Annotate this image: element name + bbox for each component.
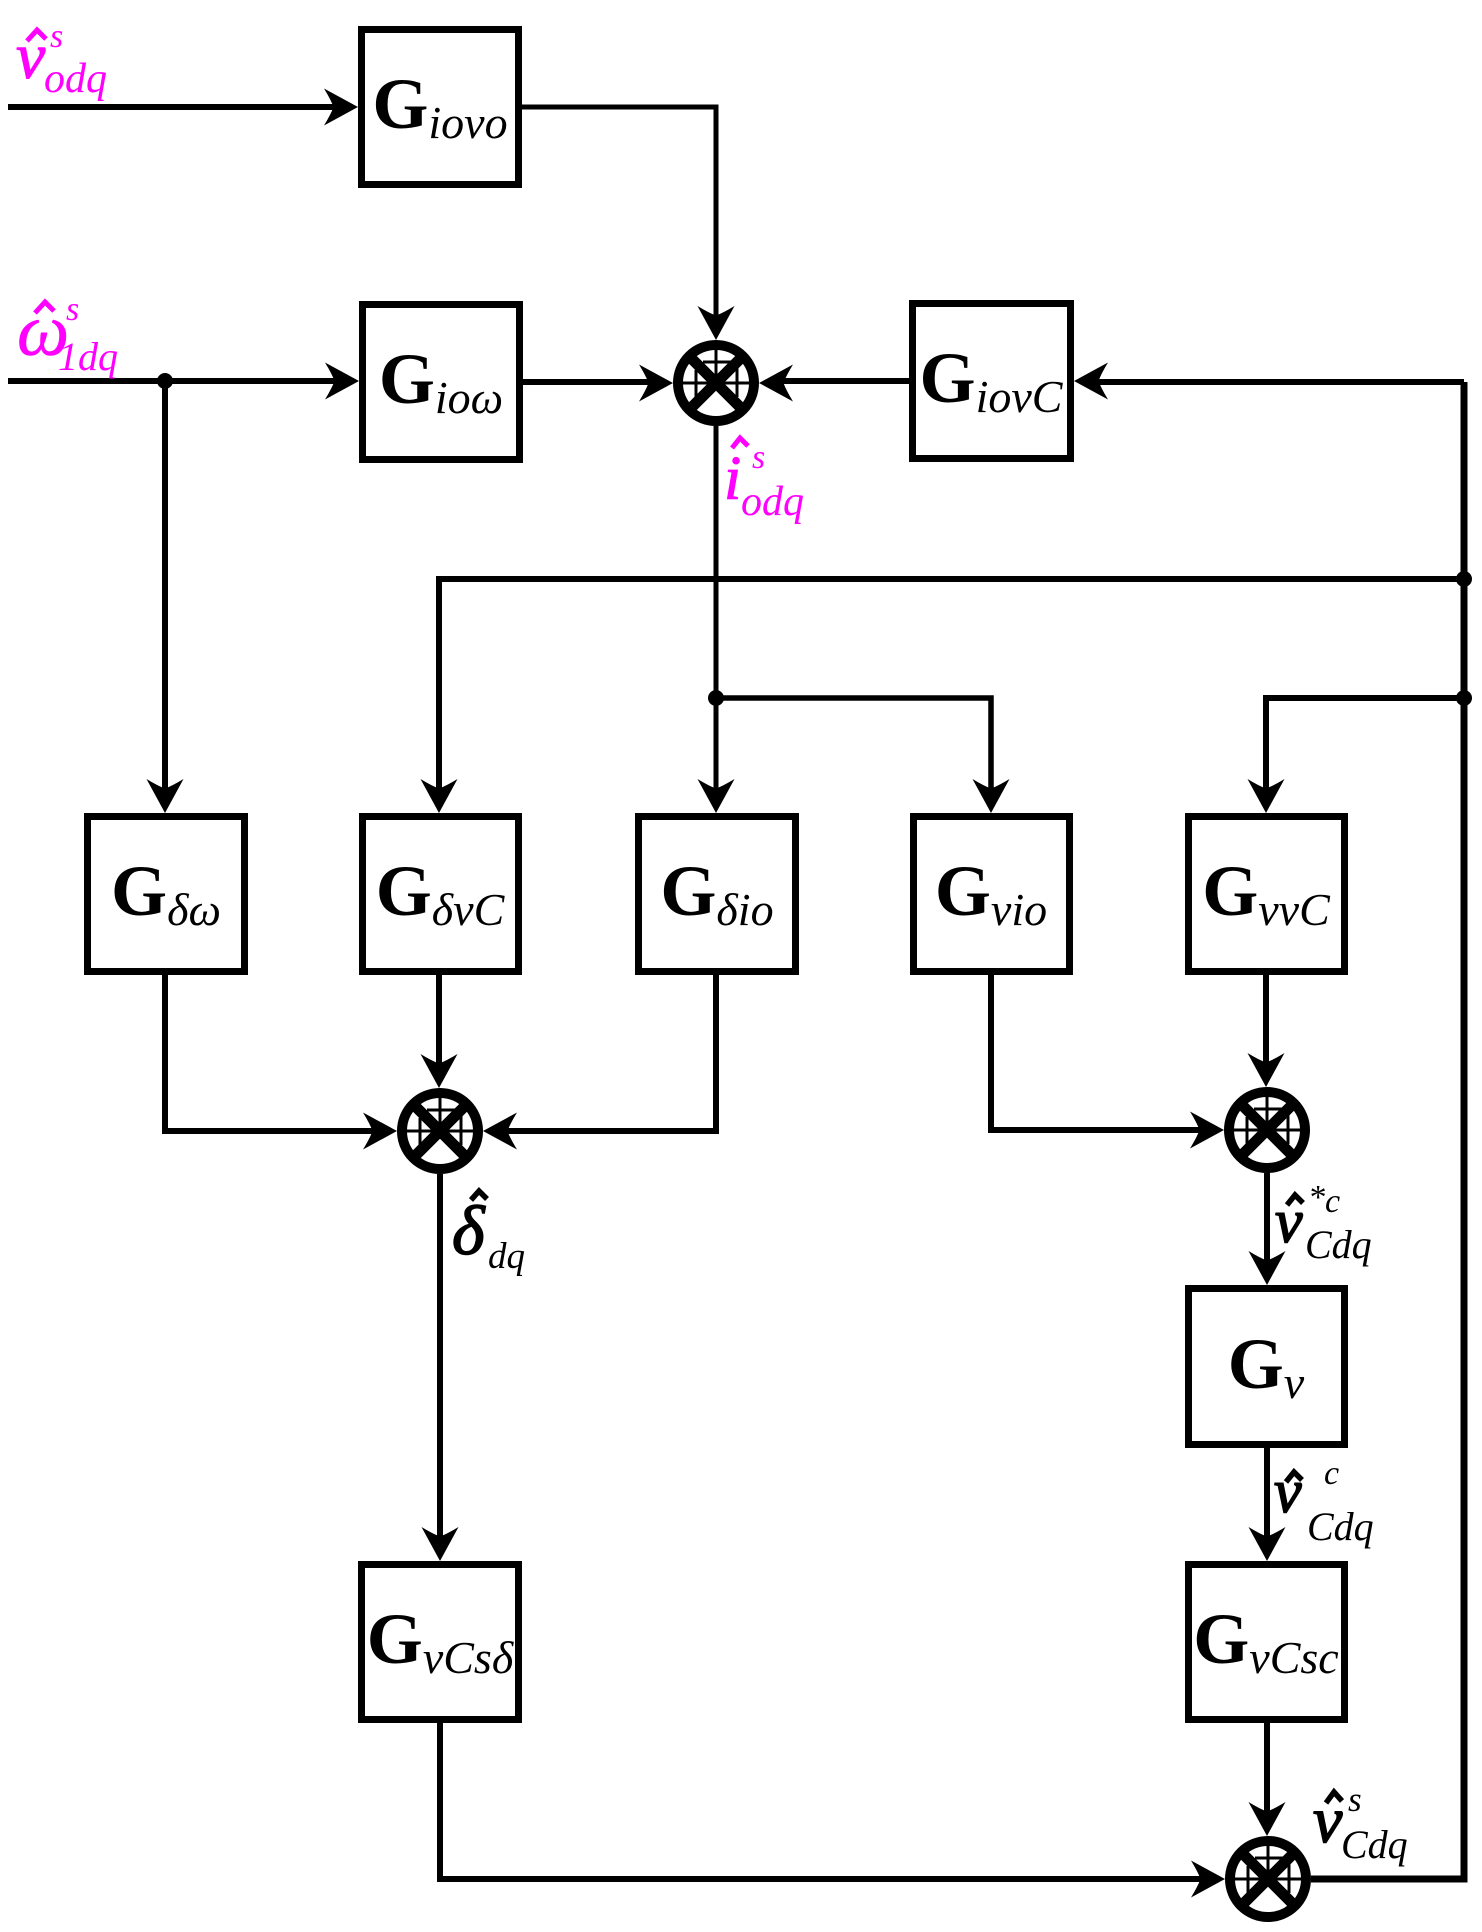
label vc_Cdq xyxy=(1274,1455,1374,1549)
svg-text:v: v xyxy=(16,20,46,93)
wire G_iovC output to SJ1 xyxy=(772,378,909,384)
summing junction SJ1 xyxy=(678,345,754,421)
svg-text:s: s xyxy=(50,18,63,55)
wire G_delta_omega output to SJ2 xyxy=(165,975,384,1131)
label delta_dq xyxy=(452,1191,525,1277)
svg-text:s: s xyxy=(1348,1780,1362,1819)
label omega_1dq (magenta input) xyxy=(17,290,118,379)
label i_odq (magenta) xyxy=(724,438,804,525)
wire SJ4 output feedback right and up xyxy=(1311,382,1464,1879)
wire G_v output to G_vCsc xyxy=(1264,1448,1270,1548)
wire omega branch down to G_delta_omega xyxy=(162,381,168,800)
box G_vCsc xyxy=(1189,1565,1345,1720)
wire vC tap to G_vvC xyxy=(1266,698,1464,800)
summing junction SJ4 xyxy=(1230,1841,1306,1917)
svg-text:c: c xyxy=(1324,1455,1339,1492)
box G_delta_vC xyxy=(363,817,519,972)
svg-text:1dq: 1dq xyxy=(58,334,118,379)
svg-text:δ: δ xyxy=(452,1193,486,1270)
svg-text:*: * xyxy=(1308,1179,1325,1216)
svg-text:c: c xyxy=(1325,1183,1340,1220)
box G_vvC xyxy=(1189,817,1345,972)
box G_iovo xyxy=(362,30,519,185)
wire feedback top into G_iovC xyxy=(1087,379,1464,385)
svg-text:v: v xyxy=(1274,1458,1302,1526)
wire G_delta_vC output to SJ2 xyxy=(436,975,442,1075)
summing junction SJ2 xyxy=(402,1093,478,1169)
wire SJ2 output down to G_vCs_delta xyxy=(437,1174,443,1548)
box G_io_omega xyxy=(363,305,520,460)
box G_v xyxy=(1189,1289,1345,1445)
label vs_Cdq output xyxy=(1313,1780,1408,1867)
svg-text:s: s xyxy=(66,291,79,328)
node i_odq branch dot xyxy=(708,690,724,706)
wire G_vvC output to SJ3 xyxy=(1263,975,1269,1074)
wire SJ1 output down to G_delta_io xyxy=(714,426,719,800)
svg-text:s: s xyxy=(752,439,765,476)
wire v input xyxy=(8,104,340,110)
node omega junction dot xyxy=(157,373,173,389)
box G_vio xyxy=(914,817,1070,972)
wire G_iovo output to SJ1 xyxy=(522,107,716,330)
wire G_vCs_delta output to SJ4 xyxy=(440,1723,1212,1879)
svg-text:Cdq: Cdq xyxy=(1341,1822,1408,1867)
svg-text:odq: odq xyxy=(44,56,107,102)
box G_delta_omega xyxy=(88,817,245,972)
box G_iovC xyxy=(913,304,1071,459)
svg-text:Cdq: Cdq xyxy=(1307,1504,1374,1549)
svg-text:odq: odq xyxy=(741,479,804,525)
wire omega input xyxy=(8,378,341,384)
wire SJ3 output to G_v xyxy=(1264,1173,1270,1272)
svg-text:i: i xyxy=(724,445,741,513)
box G_delta_io xyxy=(639,817,796,972)
label v*c_Cdq xyxy=(1275,1179,1372,1267)
summing junction SJ3 xyxy=(1229,1092,1305,1168)
svg-text:dq: dq xyxy=(488,1236,525,1277)
wire G_vio output to SJ3 xyxy=(991,975,1211,1130)
wire G_vCsc output to SJ4 xyxy=(1264,1723,1270,1823)
node vC tap dot upper xyxy=(1456,571,1472,587)
wire branch to G_vio xyxy=(716,698,991,800)
box G_vCs_delta xyxy=(362,1565,519,1720)
wire vC tap to G_delta_vC xyxy=(439,579,1464,800)
node vC tap dot lower xyxy=(1456,690,1472,706)
svg-text:Cdq: Cdq xyxy=(1305,1222,1372,1267)
wire G_io_omega output to SJ1 xyxy=(523,379,660,385)
label v_odq (magenta input) xyxy=(16,18,107,102)
wire G_delta_io output to SJ2 xyxy=(496,975,716,1131)
